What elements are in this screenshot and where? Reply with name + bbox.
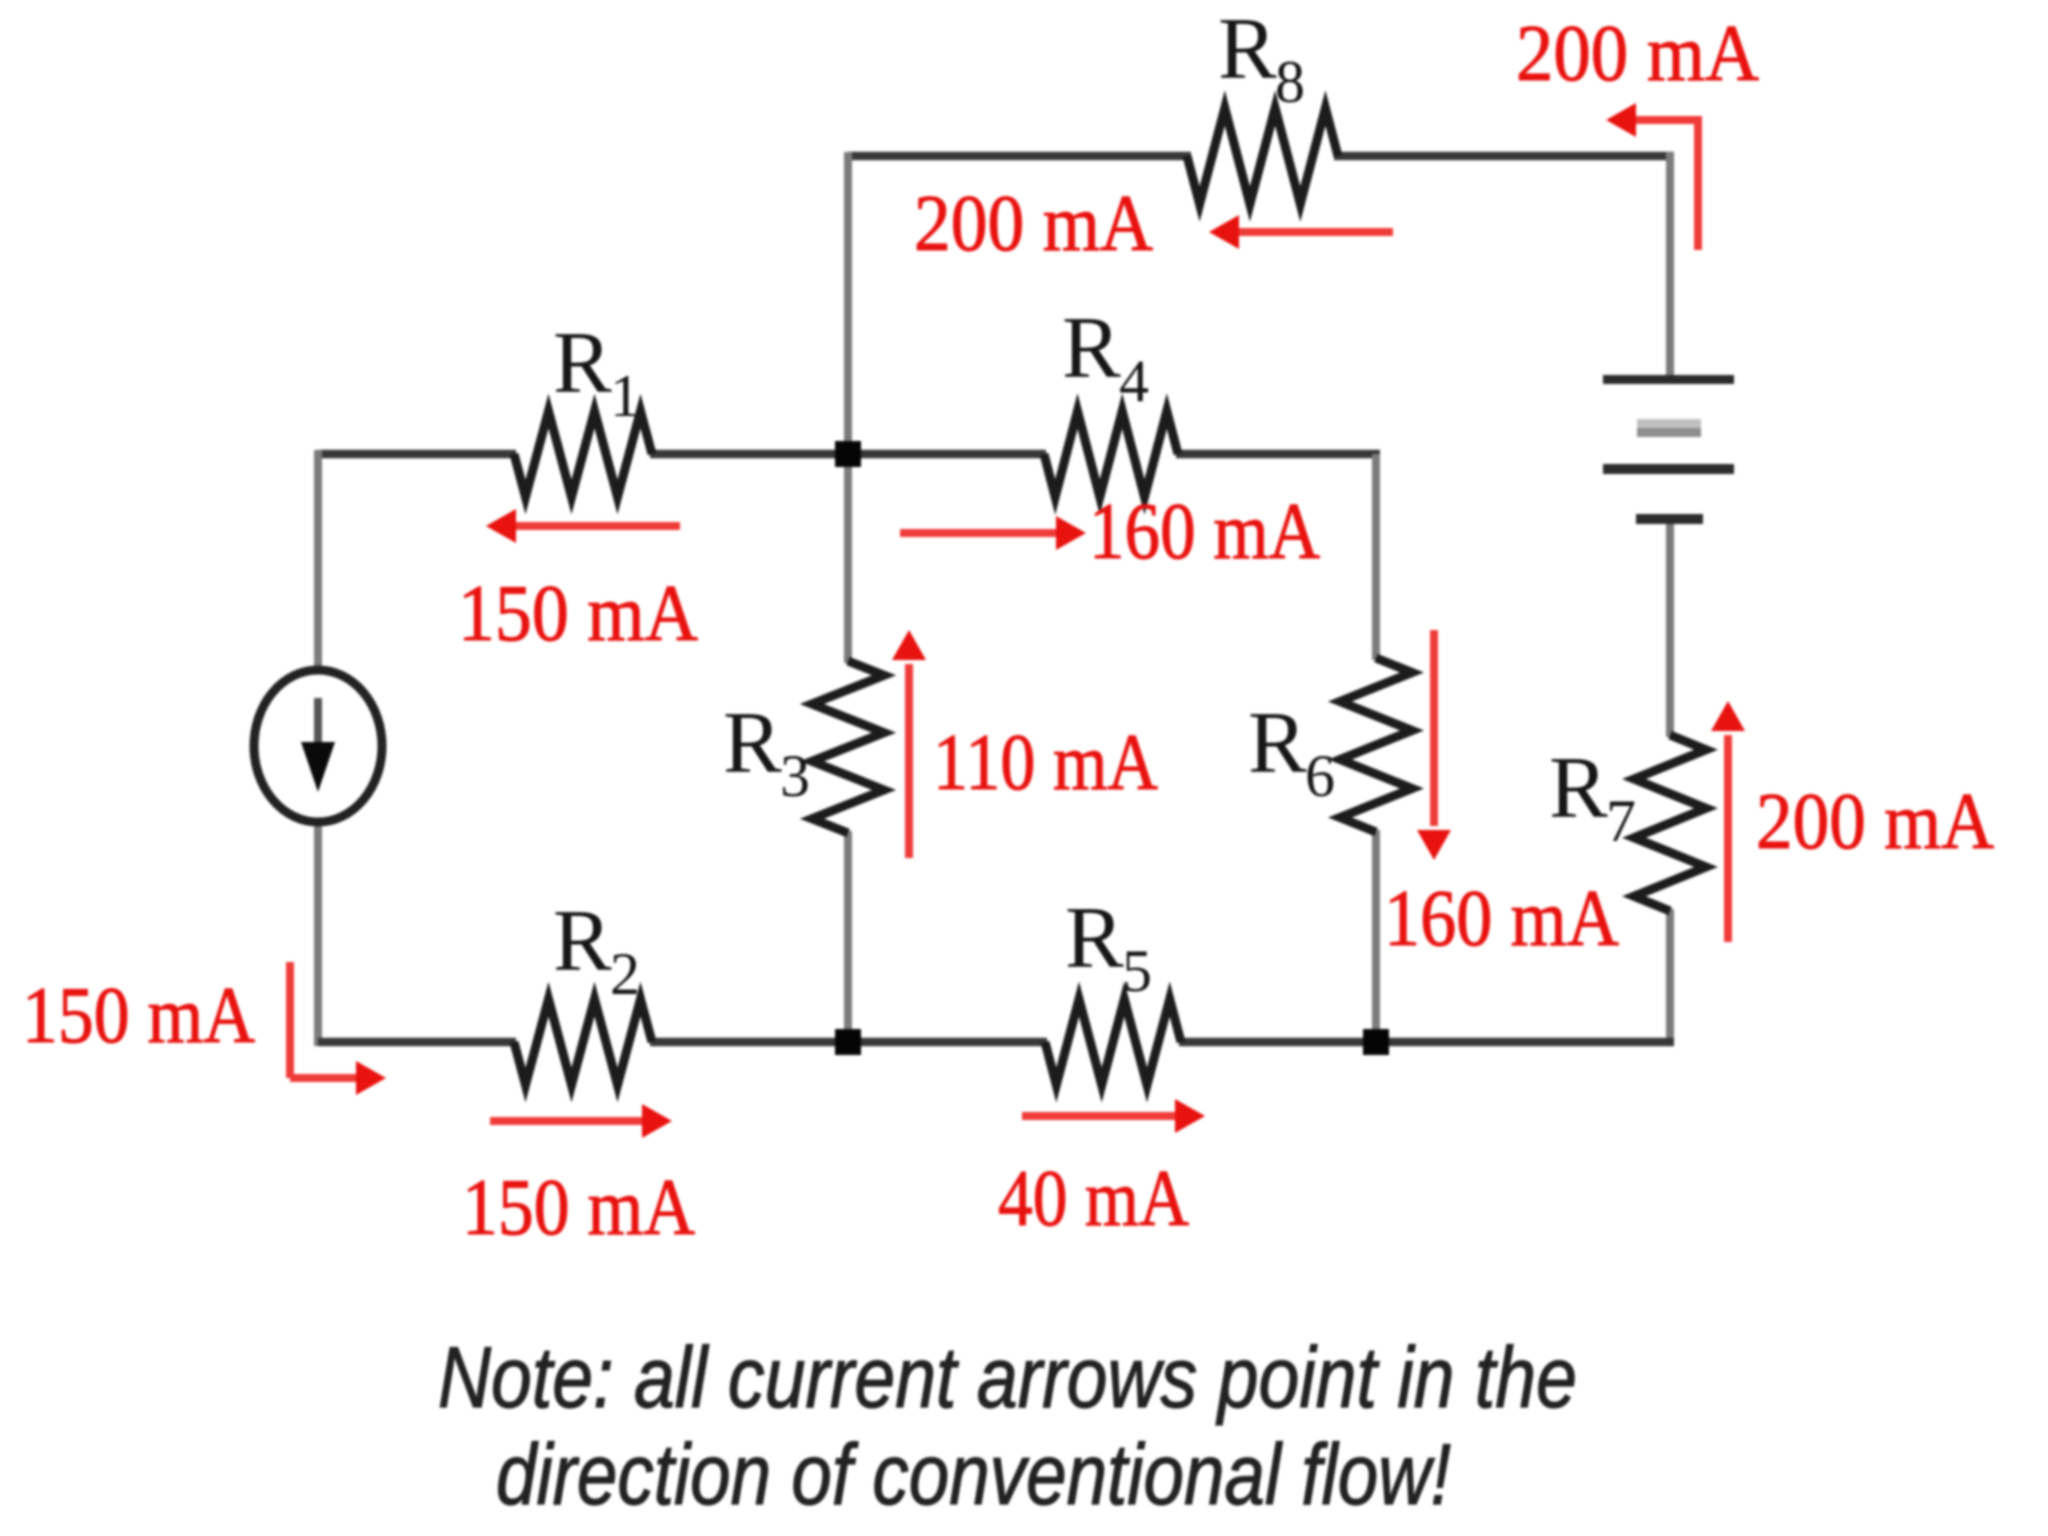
node junction dot at center rail / bottom rail xyxy=(835,1029,861,1055)
label R1 xyxy=(553,315,640,429)
svg-text:R: R xyxy=(1218,1,1277,98)
svg-text:R: R xyxy=(553,315,612,412)
wire: center vertical rail (node between R1,R4,R3,R8) xyxy=(844,152,852,1042)
svg-text:3: 3 xyxy=(780,743,810,809)
svg-text:200 mA: 200 mA xyxy=(1516,10,1759,98)
svg-text:8: 8 xyxy=(1275,49,1305,115)
label R5 xyxy=(1065,890,1152,1004)
current elbow arrow 150 mA at bottom-left corner xyxy=(290,962,386,1095)
svg-text:R: R xyxy=(1248,695,1307,792)
svg-text:R: R xyxy=(1549,740,1608,837)
resistor R3 xyxy=(812,661,884,833)
svg-text:150 mA: 150 mA xyxy=(462,1164,695,1252)
current elbow arrow 200 mA at top-right corner xyxy=(1606,103,1698,250)
svg-text:200 mA: 200 mA xyxy=(914,180,1153,268)
wire: top horizontal from center node rail to top-right corner xyxy=(848,152,1674,161)
svg-text:direction of conventional flow: direction of conventional flow! xyxy=(496,1427,1451,1523)
battery plate 4 (short, bottom) xyxy=(1636,514,1703,524)
svg-text:2: 2 xyxy=(610,941,640,1007)
resistor R1 xyxy=(514,411,652,497)
wire: R6 vertical rail xyxy=(1372,454,1380,1042)
current up arrow 110 mA beside R3 xyxy=(892,630,926,858)
battery plate 3 (long) xyxy=(1603,464,1734,474)
current arrow 160 mA pointing right under R4 xyxy=(900,516,1086,550)
resistor R7 xyxy=(1634,735,1706,911)
current source (circle with downward arrow) xyxy=(254,670,382,822)
svg-text:1: 1 xyxy=(610,363,640,429)
svg-text:110 mA: 110 mA xyxy=(933,719,1158,807)
svg-text:200 mA: 200 mA xyxy=(1756,778,1994,866)
wire: left vertical rail above current source xyxy=(314,450,322,673)
current arrow 150 mA pointing left under R1 xyxy=(486,509,680,543)
label R7 xyxy=(1549,740,1636,854)
svg-text:R: R xyxy=(1062,300,1121,397)
resistor R5 xyxy=(1045,999,1181,1085)
resistor R6 xyxy=(1340,658,1412,832)
node junction dot at R6 rail / bottom rail xyxy=(1363,1029,1389,1055)
svg-text:160 mA: 160 mA xyxy=(1384,875,1619,963)
label R6 xyxy=(1248,695,1335,809)
current arrow 150 mA pointing right under R2 xyxy=(490,1104,672,1138)
wire: left vertical rail below current source xyxy=(314,820,322,1046)
svg-text:160 mA: 160 mA xyxy=(1089,488,1320,576)
svg-text:R: R xyxy=(723,695,782,792)
svg-text:7: 7 xyxy=(1606,788,1636,854)
battery plate 1 (long, top) xyxy=(1603,375,1734,384)
svg-text:150 mA: 150 mA xyxy=(458,570,698,658)
resistor R4 xyxy=(1044,411,1178,497)
svg-text:150 mA: 150 mA xyxy=(22,972,255,1060)
wire: right vertical rail (battery to R7 to bottom wire) xyxy=(1666,522,1674,1046)
resistor R8 xyxy=(1187,108,1338,204)
svg-text:R: R xyxy=(1065,890,1124,987)
wire: bottom horizontal rail xyxy=(318,1038,1674,1047)
svg-text:Note: all current arrows point: Note: all current arrows point in the xyxy=(438,1330,1577,1426)
label R2 xyxy=(553,893,640,1007)
svg-text:R: R xyxy=(553,893,612,990)
wire: R4 row horizontal (center node to R6 rail) xyxy=(848,450,1380,459)
svg-text:4: 4 xyxy=(1119,348,1149,414)
label R4 xyxy=(1062,300,1149,414)
wire: right vertical rail (top wire to battery) xyxy=(1666,152,1674,377)
node junction dot at center rail / R1-R4 row xyxy=(835,441,861,467)
battery plate 2 (short, gray) xyxy=(1637,419,1701,437)
resistor R2 xyxy=(514,999,652,1085)
current arrow 200 mA pointing left under R8 xyxy=(1209,215,1393,249)
svg-text:40 mA: 40 mA xyxy=(998,1155,1189,1243)
wire: R1 row horizontal (left rail to center node) xyxy=(318,450,848,459)
label R3 xyxy=(723,695,810,809)
current up arrow 200 mA beside R7 xyxy=(1711,701,1745,942)
svg-text:5: 5 xyxy=(1122,938,1152,1004)
svg-text:6: 6 xyxy=(1305,743,1335,809)
label R8 xyxy=(1218,1,1305,115)
current down arrow 160 mA beside R6 xyxy=(1417,630,1451,860)
current arrow 40 mA pointing right under R5 xyxy=(1022,1099,1205,1133)
